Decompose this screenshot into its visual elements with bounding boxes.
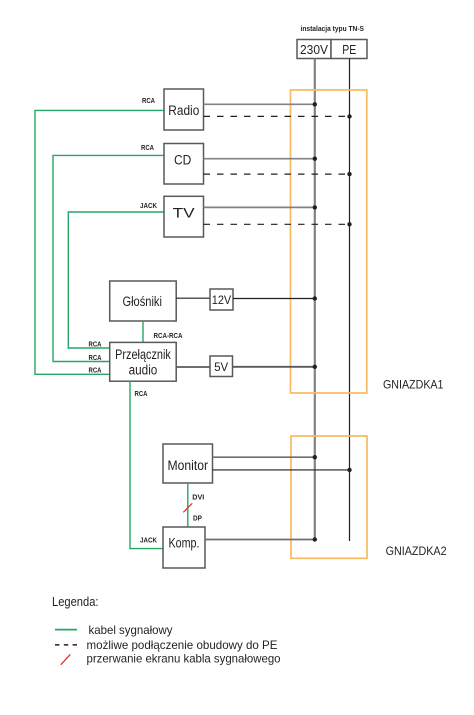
legend key dashed PE bonding	[55, 644, 77, 646]
wire radio to 230V bus	[204, 103, 315, 105]
svg-text:DP: DP	[193, 516, 202, 523]
junction monitor PE	[347, 468, 351, 472]
wire TV chassis to PE (dashed)	[204, 223, 350, 225]
svg-text:PE: PE	[342, 42, 356, 57]
wire signal monitor to computer DVI-DP (green)	[187, 483, 189, 527]
svg-text:12V: 12V	[212, 293, 232, 307]
junction radio 230V	[313, 102, 317, 106]
wire 12V supply to 230V bus	[233, 298, 315, 300]
wire signal audio switch to computer (green)	[130, 381, 163, 548]
wire signal radio RCA (green)	[35, 110, 164, 374]
svg-text:TV: TV	[173, 205, 195, 220]
svg-text:audio: audio	[129, 363, 158, 378]
svg-text:GNIAZDKA1: GNIAZDKA1	[383, 378, 444, 392]
junction TV 230V	[313, 205, 317, 209]
svg-text:kabel sygnałowy: kabel sygnałowy	[89, 623, 173, 637]
box Radio	[164, 89, 204, 130]
svg-text:przerwanie ekranu kabla sygnał: przerwanie ekranu kabla sygnałowego	[87, 651, 281, 665]
source box 230V	[297, 40, 331, 59]
svg-text:JACK: JACK	[140, 537, 157, 544]
source box PE	[331, 40, 367, 59]
junction 5V 230V	[313, 365, 317, 369]
svg-text:CD: CD	[174, 153, 192, 168]
legend key signal cable (green)	[55, 629, 77, 631]
svg-text:RCA: RCA	[89, 368, 102, 375]
svg-text:Radio: Radio	[168, 103, 199, 118]
wire PE bus vertical	[349, 59, 351, 542]
svg-text:5V: 5V	[214, 360, 228, 374]
wire 5V supply to 230V bus	[233, 366, 315, 368]
svg-text:RCA: RCA	[89, 355, 102, 362]
wire TV to 230V bus	[204, 206, 315, 208]
svg-text:możliwe podłączenie obudowy do: możliwe podłączenie obudowy do PE	[87, 638, 278, 652]
svg-text:JACK: JACK	[140, 203, 157, 210]
wire signal TV JACK (green)	[68, 212, 164, 348]
junction CD PE	[347, 172, 351, 176]
box CD	[164, 144, 204, 185]
box Glosniki (speakers)	[110, 281, 177, 321]
svg-text:RCA-RCA: RCA-RCA	[154, 333, 183, 340]
svg-text:Komp.: Komp.	[169, 536, 200, 551]
box TV	[164, 196, 204, 237]
junction TV PE	[347, 222, 351, 226]
wire audio switch to 5V supply	[176, 366, 210, 368]
wire CD to 230V bus	[204, 158, 315, 160]
box Komp (computer)	[163, 527, 205, 568]
wire computer to 230V bus	[205, 539, 315, 541]
svg-text:DVI: DVI	[192, 494, 204, 501]
junction CD 230V	[313, 157, 317, 161]
wire radio chassis to PE (dashed)	[204, 115, 350, 117]
wire signal CD RCA (green)	[53, 155, 164, 361]
svg-text:instalacja typu TN-S: instalacja typu TN-S	[301, 24, 365, 33]
svg-text:Przełącznik: Przełącznik	[115, 347, 171, 362]
svg-text:Legenda:: Legenda:	[52, 595, 99, 609]
screen break slash on DVI-DP cable	[183, 503, 192, 512]
legend key screen break slash (red)	[61, 654, 71, 664]
box audio switch (Przelacznik audio)	[110, 342, 177, 381]
junction radio PE	[347, 114, 351, 118]
wire signal speakers to audio switch RCA-RCA (green)	[142, 321, 144, 342]
wire monitor to PE	[213, 469, 350, 471]
outlet frame GNIAZDKA1	[291, 90, 367, 393]
box 5V supply	[210, 356, 233, 377]
outlet frame GNIAZDKA2	[291, 436, 367, 558]
wire monitor to 230V bus	[213, 456, 315, 458]
svg-text:RCA: RCA	[142, 98, 155, 105]
junction 12V 230V	[313, 296, 317, 300]
box 12V supply	[210, 289, 233, 310]
wire 230V bus vertical	[314, 59, 316, 540]
wire speakers to 12V supply	[176, 297, 210, 299]
wire CD chassis to PE (dashed)	[204, 173, 350, 175]
junction monitor 230V	[313, 455, 317, 459]
svg-text:GNIAZDKA2: GNIAZDKA2	[386, 544, 447, 558]
svg-text:RCA: RCA	[89, 341, 102, 348]
svg-text:RCA: RCA	[135, 391, 148, 398]
svg-text:230V: 230V	[300, 42, 328, 57]
svg-text:Monitor: Monitor	[168, 458, 209, 473]
svg-text:RCA: RCA	[141, 145, 154, 152]
svg-text:Głośniki: Głośniki	[122, 294, 162, 309]
box Monitor	[163, 444, 213, 483]
junction computer 230V	[313, 537, 317, 541]
